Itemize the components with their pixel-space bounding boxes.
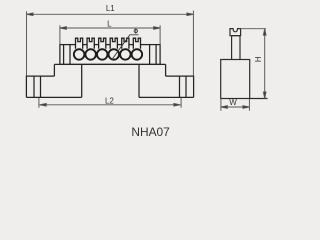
bar end plate lines [64,45,157,65]
busbar body (front view bar) [60,45,160,65]
right ear internal lines [180,76,187,97]
svg-text:H: H [254,56,263,62]
pedestal internal verticals [82,64,139,97]
screw heads (front view, 6x) [76,38,141,49]
side view: base block [221,60,250,99]
dimension H [263,29,266,99]
left ear internal lines [34,76,41,97]
diameter symbol [134,28,137,33]
right mounting ear [166,76,194,97]
svg-text:L1: L1 [106,4,115,13]
diameter leader line [112,35,139,60]
terminal holes (6 circles) [74,49,142,60]
left mounting ear [26,76,54,97]
side view: neck [232,36,240,60]
svg-text:NHA07: NHA07 [131,125,170,139]
side view: bottom line extension to H dim [250,98,268,100]
dimension L [60,25,160,44]
dimension W [221,99,250,111]
side view: screw head [221,29,268,99]
side view: top line to H dim [241,28,266,30]
dimension L1 [27,11,194,76]
pedestal under bar [54,64,165,76]
svg-text:L2: L2 [105,96,114,105]
base bottom line [26,96,193,98]
svg-text:L: L [107,19,112,28]
svg-text:W: W [229,98,237,107]
dimension L2 [39,98,181,108]
